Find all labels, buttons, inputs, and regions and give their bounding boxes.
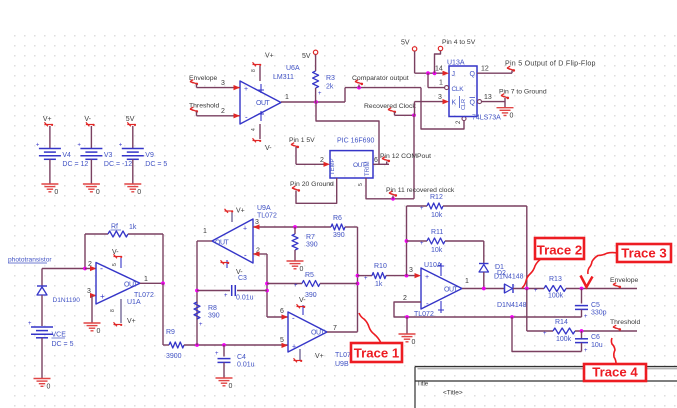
svg-text:3900: 3900 — [166, 353, 182, 360]
svg-text:1k: 1k — [129, 224, 137, 231]
svg-text:0: 0 — [510, 113, 514, 120]
svg-text:DC = 12: DC = 12 — [62, 161, 88, 168]
svg-text:Pin 5 Output of D Flip-Flop: Pin 5 Output of D Flip-Flop — [505, 60, 596, 68]
svg-text:390: 390 — [333, 232, 345, 239]
svg-text:C5: C5 — [591, 302, 600, 309]
svg-text:-: - — [244, 251, 247, 260]
svg-text:+: + — [119, 143, 123, 149]
svg-text:Comparator output: Comparator output — [352, 75, 409, 82]
svg-text:-: - — [100, 264, 103, 274]
svg-text:V-: V- — [112, 249, 119, 256]
svg-text:V+: V+ — [315, 353, 324, 360]
svg-text:330p: 330p — [591, 310, 607, 317]
svg-text:R7: R7 — [306, 234, 315, 241]
svg-text:Q: Q — [470, 71, 476, 78]
svg-text:TEMP: TEMP — [330, 158, 336, 175]
svg-text:U9B: U9B — [335, 361, 349, 368]
svg-text:J: J — [452, 71, 456, 78]
svg-text:TL072: TL072 — [257, 213, 277, 220]
svg-text:13: 13 — [484, 94, 492, 101]
svg-text:+: + — [224, 293, 228, 299]
svg-text:OUT: OUT — [311, 330, 326, 337]
svg-text:10k: 10k — [431, 247, 443, 254]
svg-text:phototransistor: phototransistor — [8, 257, 52, 264]
svg-text:V-: V- — [265, 145, 272, 152]
svg-text:CLK: CLK — [452, 86, 465, 93]
svg-text:1: 1 — [285, 94, 289, 101]
svg-text:DC = 5: DC = 5 — [52, 341, 74, 348]
svg-text:0: 0 — [300, 266, 304, 273]
svg-text:R5: R5 — [305, 272, 314, 279]
svg-text:+: + — [243, 226, 247, 233]
svg-text:+: + — [420, 206, 424, 212]
svg-text:74LS73A: 74LS73A — [472, 115, 501, 122]
svg-text:R6: R6 — [333, 215, 342, 222]
svg-text:Pin 12 COMPout: Pin 12 COMPout — [380, 153, 431, 160]
svg-text:V+: V+ — [43, 116, 52, 123]
svg-text:D1N4148: D1N4148 — [497, 302, 527, 309]
svg-text:Trace 1: Trace 1 — [354, 346, 399, 361]
svg-text:DC = 5: DC = 5 — [145, 161, 167, 168]
svg-text:390: 390 — [305, 292, 317, 299]
svg-text:0.01u: 0.01u — [237, 362, 255, 369]
svg-text:+: + — [215, 351, 219, 357]
svg-text:C6: C6 — [591, 334, 600, 341]
svg-text:U9A: U9A — [257, 205, 271, 212]
svg-text:4: 4 — [251, 128, 257, 131]
svg-text:2: 2 — [88, 261, 92, 268]
svg-text:2k: 2k — [326, 84, 334, 91]
svg-text:1: 1 — [144, 276, 148, 283]
svg-text:-: - — [245, 113, 248, 122]
svg-text:Title: Title — [417, 382, 429, 388]
svg-text:PIC 16F690: PIC 16F690 — [337, 138, 374, 145]
svg-text:390: 390 — [208, 313, 220, 320]
svg-text:D1N4148: D1N4148 — [494, 274, 524, 281]
svg-text:1: 1 — [465, 278, 469, 285]
svg-text:7: 7 — [333, 325, 337, 332]
svg-text:+: + — [28, 321, 32, 327]
svg-text:K: K — [452, 100, 457, 107]
svg-text:1k: 1k — [375, 281, 383, 288]
svg-text:Envelope: Envelope — [189, 75, 218, 82]
svg-text:+: + — [318, 91, 322, 97]
svg-text:5V: 5V — [302, 53, 311, 60]
svg-text:Envelope: Envelope — [610, 277, 639, 284]
svg-text:C3: C3 — [238, 275, 247, 282]
svg-text:1: 1 — [439, 80, 443, 87]
svg-text:R9: R9 — [166, 329, 175, 336]
svg-text:Pin 20 Ground: Pin 20 Ground — [290, 181, 334, 188]
svg-text:5: 5 — [112, 263, 118, 266]
svg-text:Trace 2: Trace 2 — [537, 243, 582, 258]
svg-text:+: + — [199, 322, 203, 328]
svg-text:3: 3 — [87, 288, 91, 295]
svg-text:+: + — [244, 86, 248, 93]
svg-text:390: 390 — [306, 242, 318, 249]
svg-text:U1A: U1A — [127, 299, 141, 306]
svg-text:3: 3 — [438, 94, 442, 101]
svg-text:OUT: OUT — [215, 240, 230, 247]
svg-text:0: 0 — [412, 339, 416, 346]
svg-text:0: 0 — [54, 189, 58, 196]
svg-text:TL072: TL072 — [134, 292, 154, 299]
svg-text:OUT: OUT — [124, 282, 139, 289]
svg-text:2: 2 — [403, 295, 407, 302]
svg-text:R10: R10 — [374, 263, 387, 270]
svg-text:1: 1 — [203, 228, 207, 235]
svg-text:V4: V4 — [62, 152, 71, 159]
svg-text:+: + — [292, 344, 296, 351]
svg-text:OUT: OUT — [353, 162, 366, 169]
svg-text:14: 14 — [435, 66, 443, 73]
svg-text:+: + — [420, 241, 424, 247]
svg-text:0.01u: 0.01u — [236, 295, 254, 302]
svg-text:5V: 5V — [401, 40, 410, 47]
svg-text:0: 0 — [47, 384, 51, 391]
svg-text:OUT: OUT — [444, 287, 459, 294]
svg-text:5: 5 — [280, 337, 284, 344]
svg-text:V9: V9 — [145, 152, 154, 159]
svg-text:C4: C4 — [237, 354, 246, 361]
svg-text:R11: R11 — [431, 229, 443, 236]
svg-text:R8: R8 — [208, 305, 217, 312]
svg-text:3: 3 — [221, 80, 225, 87]
svg-text:D1N1190: D1N1190 — [53, 297, 81, 304]
svg-text:0: 0 — [137, 189, 141, 196]
svg-text:2: 2 — [320, 157, 324, 164]
svg-text:V+: V+ — [127, 318, 136, 325]
svg-text:100k: 100k — [548, 293, 564, 300]
svg-text:2: 2 — [221, 108, 225, 115]
svg-text:+: + — [425, 274, 429, 281]
svg-text:+: + — [100, 292, 105, 301]
svg-text:100k: 100k — [556, 336, 572, 343]
svg-text:Threshold: Threshold — [189, 103, 219, 110]
svg-text:3: 3 — [329, 182, 335, 185]
svg-text:10u: 10u — [591, 342, 603, 349]
svg-text:LM311: LM311 — [273, 74, 294, 81]
svg-text:0: 0 — [97, 328, 101, 335]
svg-text:0: 0 — [96, 189, 100, 196]
svg-text:Pin 4 to 5V: Pin 4 to 5V — [442, 39, 476, 46]
svg-text:R13: R13 — [549, 276, 562, 283]
svg-text:R12: R12 — [430, 194, 443, 201]
svg-text:V+: V+ — [265, 53, 274, 60]
svg-text:8: 8 — [110, 309, 116, 312]
svg-text:+: + — [534, 288, 538, 294]
svg-text:+: + — [543, 331, 547, 337]
svg-text:+: + — [77, 143, 81, 149]
svg-text:V-: V- — [299, 297, 306, 304]
svg-text:Pin 7 to Ground: Pin 7 to Ground — [499, 89, 547, 96]
svg-text:VCE: VCE — [52, 332, 67, 339]
svg-text:+: + — [294, 283, 298, 289]
svg-text:-: - — [426, 299, 429, 308]
svg-text:U6A: U6A — [286, 65, 300, 72]
svg-text:V-: V- — [84, 116, 91, 123]
svg-text:6: 6 — [374, 157, 378, 164]
svg-text:Rf: Rf — [111, 224, 118, 231]
svg-text:OUT: OUT — [256, 100, 271, 107]
svg-text:Trace 3: Trace 3 — [621, 246, 666, 261]
svg-text:CLR: CLR — [461, 99, 467, 110]
svg-text:U13A: U13A — [447, 60, 465, 67]
svg-text:Pin 11 recovered clock: Pin 11 recovered clock — [386, 187, 455, 194]
svg-text:R3: R3 — [326, 75, 335, 82]
svg-text:6: 6 — [280, 308, 284, 315]
svg-text:5V: 5V — [126, 116, 135, 123]
svg-text:12: 12 — [481, 66, 489, 73]
svg-text:Trace 4: Trace 4 — [592, 365, 638, 380]
svg-text:<Title>: <Title> — [443, 390, 463, 397]
svg-text:+: + — [584, 348, 588, 354]
svg-text:Q: Q — [470, 100, 476, 107]
svg-text:8: 8 — [251, 69, 257, 72]
svg-text:-: - — [292, 314, 295, 323]
svg-text:V3: V3 — [104, 152, 113, 159]
svg-text:3: 3 — [409, 267, 413, 274]
svg-text:5: 5 — [358, 183, 364, 186]
svg-text:DC = -12: DC = -12 — [104, 161, 132, 168]
svg-text:TRIM: TRIM — [365, 161, 371, 176]
svg-text:V+: V+ — [236, 208, 245, 215]
svg-text:+: + — [36, 143, 40, 149]
svg-text:Threshold: Threshold — [610, 319, 640, 326]
svg-text:+: + — [584, 314, 588, 320]
svg-text:+: + — [364, 276, 368, 282]
svg-text:0: 0 — [229, 383, 233, 390]
svg-text:R14: R14 — [555, 319, 568, 326]
svg-text:10k: 10k — [431, 212, 443, 219]
